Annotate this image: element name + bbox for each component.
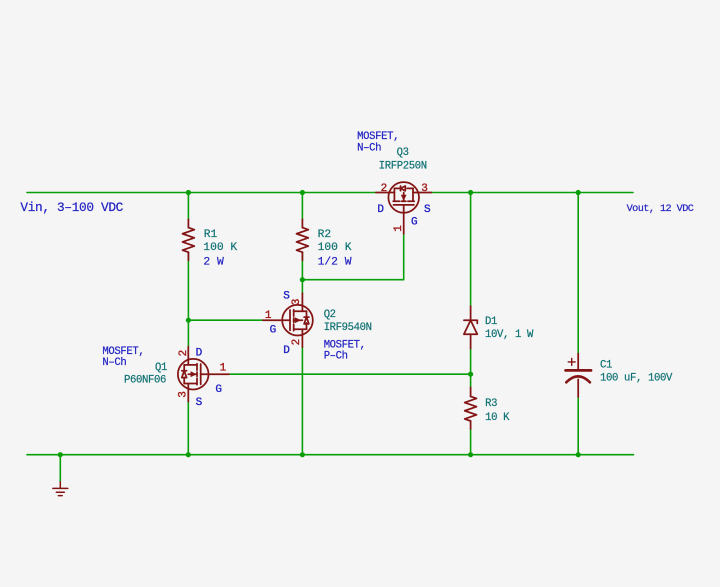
junction top rail D1 [468, 190, 473, 195]
svg-text:G: G [270, 324, 277, 336]
svg-text:2: 2 [291, 339, 303, 346]
svg-text:2: 2 [381, 183, 388, 195]
svg-text:R3: R3 [485, 398, 497, 410]
junction bottom rail Q1 source [186, 452, 191, 457]
svg-text:1: 1 [393, 225, 405, 232]
diode D1 zener 10V [464, 306, 477, 348]
svg-text:Q2: Q2 [324, 309, 336, 321]
svg-text:N–Ch: N–Ch [357, 142, 381, 154]
svg-text:R1: R1 [204, 229, 218, 241]
svg-text:2: 2 [178, 350, 190, 357]
resistor R1 [183, 219, 195, 260]
wire node R1-Q2 gate [188, 319, 263, 321]
svg-text:10 K: 10 K [485, 412, 510, 424]
wire bottom ground rail [27, 454, 634, 456]
svg-text:1/2 W: 1/2 W [318, 257, 352, 269]
svg-text:3: 3 [291, 299, 303, 306]
wire C1 to ground rail [577, 397, 579, 455]
svg-text:MOSFET,: MOSFET, [357, 131, 399, 143]
wire R1 bottom to Q1 drain [187, 252, 189, 346]
svg-text:100 K: 100 K [318, 242, 352, 254]
junction node R1-Q2 gate [186, 318, 191, 323]
svg-text:P–Ch: P–Ch [324, 351, 348, 363]
wire Q2 drain to ground rail [301, 347, 303, 455]
svg-text:3: 3 [178, 391, 190, 398]
svg-text:R2: R2 [318, 229, 332, 241]
junction bottom rail Q2 drain [300, 452, 305, 457]
svg-text:Q3: Q3 [397, 147, 409, 159]
transistor Q2 IRF9540N P-ch MOSFET [263, 293, 313, 347]
junction bottom rail C1 [576, 452, 581, 457]
wire Q1 source to ground rail [187, 402, 189, 455]
resistor R3 [465, 388, 477, 430]
svg-text:D: D [196, 348, 203, 360]
wire top rail Q3 source to Vout [431, 192, 633, 194]
svg-text:P60NF06: P60NF06 [124, 375, 166, 387]
transistor Q3 IRFP250N N-ch MOSFET [376, 182, 431, 234]
wire D1 column from top rail [470, 193, 472, 307]
wire node to R3 [470, 374, 472, 387]
svg-text:2 W: 2 W [203, 257, 224, 269]
svg-text:N–Ch: N–Ch [102, 357, 126, 369]
svg-text:IRFP250N: IRFP250N [379, 160, 427, 172]
junction top rail R1 [186, 190, 191, 195]
svg-text:D1: D1 [485, 316, 497, 328]
junction bottom rail ground [58, 452, 63, 457]
wire C1 column from top rail [577, 193, 579, 354]
junction bottom rail R3 [468, 452, 473, 457]
junction node D1-R3-Q1 gate [468, 372, 473, 377]
wire ground stub [59, 455, 61, 482]
wire top rail Vin to Q3 drain [27, 192, 376, 194]
ground [53, 482, 68, 496]
svg-text:1: 1 [265, 310, 272, 322]
junction top rail C1 [576, 190, 581, 195]
wire D1 to node [470, 349, 472, 375]
svg-text:Q1: Q1 [155, 362, 167, 374]
svg-text:Vin, 3–100 VDC: Vin, 3–100 VDC [20, 200, 123, 215]
wire R3 to ground rail [470, 429, 472, 455]
transistor Q1 P60NF06 N-ch MOSFET [178, 347, 229, 402]
svg-text:S: S [283, 290, 290, 302]
svg-text:10V, 1 W: 10V, 1 W [485, 329, 534, 341]
wire R2 column top [301, 193, 303, 220]
svg-text:3: 3 [421, 183, 428, 195]
wire Q1 gate to D1 node [229, 373, 471, 375]
svg-text:D: D [377, 204, 384, 216]
svg-text:C1: C1 [600, 360, 612, 372]
svg-text:IRF9540N: IRF9540N [324, 322, 372, 334]
svg-text:G: G [215, 384, 222, 396]
junction node R2-Q2 source-Q3 gate [300, 277, 305, 282]
svg-text:G: G [411, 217, 418, 229]
junction top rail R2 [300, 190, 305, 195]
svg-text:S: S [424, 204, 431, 216]
wire Q3 gate to R2 node [302, 234, 403, 280]
resistor R2 [297, 219, 309, 260]
capacitor C1 polarized [566, 354, 591, 398]
svg-text:Vout, 12 VDC: Vout, 12 VDC [627, 204, 694, 215]
wire R1 column top [187, 193, 189, 220]
svg-text:1: 1 [220, 363, 227, 375]
svg-text:D: D [283, 345, 290, 357]
svg-text:100 K: 100 K [203, 242, 237, 254]
svg-text:100 uF, 100V: 100 uF, 100V [600, 373, 673, 385]
svg-text:S: S [196, 397, 203, 409]
wire R2 bottom node [301, 252, 303, 293]
